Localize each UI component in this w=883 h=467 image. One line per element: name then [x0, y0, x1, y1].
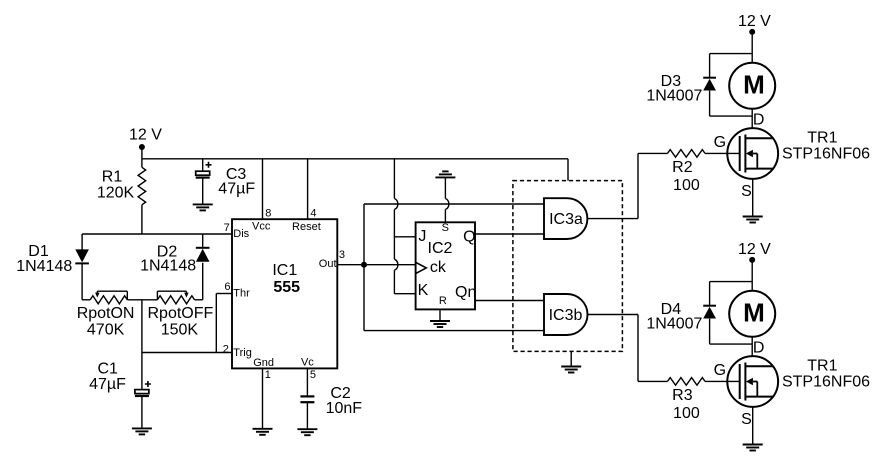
svg-text:S: S	[741, 411, 752, 428]
svg-text:Q: Q	[463, 229, 475, 246]
svg-text:12 V: 12 V	[738, 13, 771, 30]
svg-text:Out: Out	[319, 258, 337, 270]
svg-text:IC1: IC1	[272, 262, 297, 279]
svg-text:1N4007: 1N4007	[646, 316, 702, 333]
svg-text:Vc: Vc	[301, 357, 314, 369]
svg-text:IC3a: IC3a	[549, 211, 583, 228]
svg-text:1: 1	[265, 369, 271, 381]
svg-text:G: G	[714, 362, 726, 379]
svg-text:IC3b: IC3b	[549, 307, 583, 324]
svg-text:12 V: 12 V	[738, 241, 771, 258]
svg-text:Thr: Thr	[233, 288, 250, 300]
svg-text:S: S	[741, 183, 752, 200]
svg-text:R: R	[439, 295, 447, 307]
svg-text:Gnd: Gnd	[253, 357, 274, 369]
svg-text:STP16NF06: STP16NF06	[782, 145, 870, 162]
svg-text:150K: 150K	[161, 322, 199, 339]
svg-text:1N4007: 1N4007	[646, 88, 702, 105]
svg-text:RpotON: RpotON	[77, 305, 135, 322]
svg-text:Reset: Reset	[292, 221, 321, 233]
svg-text:47µF: 47µF	[218, 180, 255, 197]
svg-text:7: 7	[224, 222, 230, 234]
svg-text:100: 100	[673, 405, 700, 422]
svg-text:K: K	[418, 282, 429, 299]
svg-text:4: 4	[310, 207, 316, 219]
svg-text:STP16NF06: STP16NF06	[782, 373, 870, 390]
svg-text:470K: 470K	[87, 322, 125, 339]
svg-text:100: 100	[673, 177, 700, 194]
svg-text:J: J	[418, 228, 426, 245]
svg-text:IC2: IC2	[428, 240, 453, 257]
svg-text:47µF: 47µF	[89, 376, 126, 393]
svg-text:D: D	[753, 111, 765, 128]
svg-text:Trig: Trig	[233, 347, 252, 359]
svg-text:R3: R3	[672, 387, 693, 404]
svg-text:8: 8	[265, 207, 271, 219]
svg-text:2: 2	[223, 343, 229, 355]
svg-text:C1: C1	[97, 360, 118, 377]
svg-text:3: 3	[339, 249, 345, 261]
svg-text:1N4148: 1N4148	[16, 258, 72, 275]
svg-text:RpotOFF: RpotOFF	[148, 305, 214, 322]
svg-text:R1: R1	[102, 168, 123, 185]
svg-text:12 V: 12 V	[129, 127, 162, 144]
svg-text:6: 6	[224, 281, 230, 293]
svg-text:TR1: TR1	[807, 130, 837, 147]
svg-text:Qn: Qn	[455, 284, 476, 301]
svg-text:Vcc: Vcc	[252, 221, 271, 233]
svg-text:Dis: Dis	[233, 228, 249, 240]
svg-text:TR1: TR1	[807, 358, 837, 375]
svg-text:ck: ck	[430, 259, 447, 276]
svg-text:S: S	[442, 222, 449, 234]
svg-text:120K: 120K	[97, 185, 135, 202]
svg-text:M: M	[743, 298, 765, 328]
svg-text:M: M	[743, 70, 765, 100]
svg-text:G: G	[714, 134, 726, 151]
svg-text:555: 555	[273, 279, 300, 296]
svg-text:R2: R2	[672, 159, 693, 176]
svg-text:D: D	[753, 339, 765, 356]
svg-text:1N4148: 1N4148	[140, 258, 196, 275]
svg-text:5: 5	[310, 369, 316, 381]
svg-text:10nF: 10nF	[326, 400, 363, 417]
